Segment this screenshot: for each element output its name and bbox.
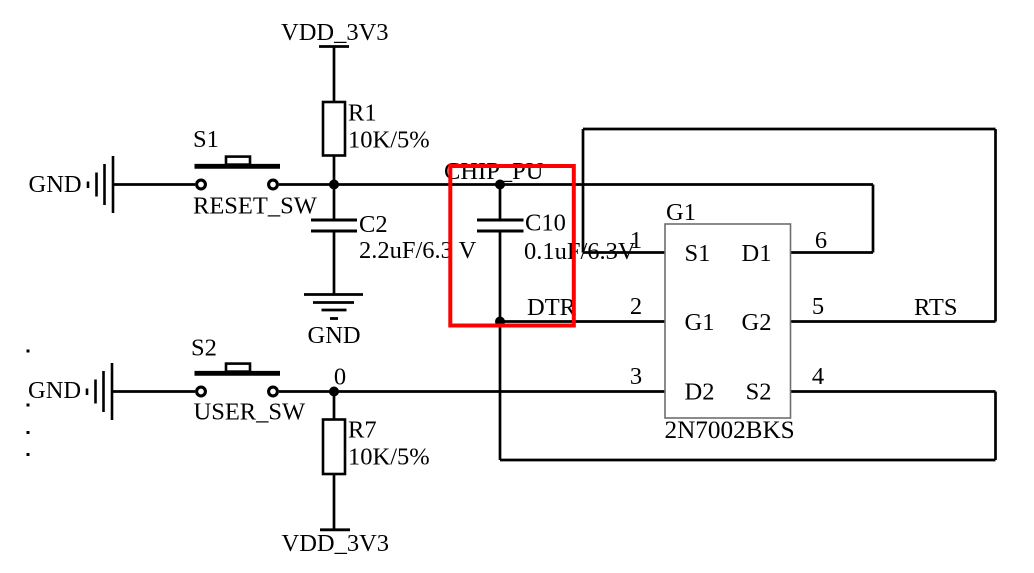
svg-text:R1: R1 <box>348 100 377 127</box>
wire pin 6 riser <box>872 185 875 253</box>
svg-text:RESET_SW: RESET_SW <box>193 193 318 220</box>
svg-text:C2: C2 <box>359 211 388 238</box>
resistor R1 <box>323 102 345 156</box>
stray mark 4 <box>27 453 30 456</box>
wire pin 6 (D1) <box>791 251 874 254</box>
svg-text:1: 1 <box>630 227 642 254</box>
wire bottom bus <box>500 459 996 462</box>
svg-text:GND: GND <box>308 322 361 349</box>
svg-text:VDD_3V3: VDD_3V3 <box>282 530 390 557</box>
wire DTR drop <box>499 322 502 461</box>
wire pin 4 (S2) <box>791 390 996 393</box>
svg-text:4: 4 <box>812 363 824 390</box>
component body G1 (2N7002BKS) <box>665 224 791 418</box>
svg-text:5: 5 <box>812 293 824 320</box>
svg-text:RTS: RTS <box>914 294 957 321</box>
junction node CHIP_PU / C10 top <box>495 180 505 190</box>
svg-text:G2: G2 <box>742 309 772 336</box>
svg-text:G1: G1 <box>685 309 715 336</box>
svg-text:CHIP_PU: CHIP_PU <box>444 158 544 185</box>
svg-text:DTR: DTR <box>527 294 577 321</box>
wire pin 1 (S1) <box>583 251 665 254</box>
wire GND to S1 pin (reset row) <box>113 183 195 186</box>
svg-text:S1: S1 <box>193 126 219 153</box>
wire pin 5 RTS (G2) <box>791 320 996 323</box>
wire C10 bottom lead <box>499 232 502 322</box>
wire R7 top lead <box>333 392 336 422</box>
junction node DTR / C10 bottom <box>495 317 505 327</box>
power symbol VDD_3V3 top <box>319 45 349 48</box>
wire pin 4 drop <box>994 392 997 461</box>
svg-text:R7: R7 <box>348 417 377 444</box>
switch S1 <box>195 157 281 189</box>
svg-text:S2: S2 <box>746 379 772 406</box>
wire C2 top lead <box>333 185 336 220</box>
svg-text:10K/5%: 10K/5% <box>348 127 430 154</box>
wire top bus left vertical <box>582 129 585 253</box>
stray mark 1 <box>27 350 30 353</box>
svg-text:6: 6 <box>815 227 827 254</box>
highlight box around C10 <box>450 166 574 326</box>
svg-text:GND: GND <box>28 377 81 404</box>
svg-text:S1: S1 <box>685 240 711 267</box>
resistor R7 <box>323 420 345 475</box>
wire DTR row pin 2 (G1) <box>500 320 665 323</box>
svg-text:10K/5%: 10K/5% <box>348 444 430 471</box>
wire top bus horizontal <box>583 128 996 131</box>
power symbol VDD_3V3 bottom <box>320 528 350 531</box>
svg-text:D2: D2 <box>685 379 715 406</box>
svg-text:S2: S2 <box>191 335 217 362</box>
svg-text:0: 0 <box>334 364 346 391</box>
wire GND to S2 pin (user row) <box>112 390 195 393</box>
wire S2 to pin 3 (D2) <box>279 390 665 393</box>
wire C2 bottom lead <box>333 232 336 295</box>
svg-text:3: 3 <box>630 363 642 390</box>
wire top bus right vertical <box>994 129 997 322</box>
svg-text:2.2uF/6.3 V: 2.2uF/6.3 V <box>359 237 477 264</box>
ground symbol left of S2 <box>87 363 112 420</box>
stray mark 3 <box>27 431 30 434</box>
svg-text:GND: GND <box>29 171 82 198</box>
svg-text:C10: C10 <box>525 210 566 237</box>
svg-text:0.1uF/6.3V: 0.1uF/6.3V <box>524 238 636 265</box>
junction node R1/S1/C2 <box>329 180 339 190</box>
svg-text:VDD_3V3: VDD_3V3 <box>281 19 389 46</box>
junction node S2/R7/pin3 <box>329 387 339 397</box>
wire S1 to pin6 riser (CHIP_PU net) <box>279 183 873 186</box>
svg-text:2N7002BKS: 2N7002BKS <box>665 417 795 444</box>
ground symbol left of S1 <box>88 156 113 213</box>
switch S2 <box>195 364 281 396</box>
svg-text:G1: G1 <box>666 199 696 226</box>
wire C10 top lead <box>499 185 502 220</box>
ground symbol under C2 <box>304 295 363 319</box>
wire R1 top lead <box>333 47 336 104</box>
wire R1 bottom lead <box>333 155 336 185</box>
svg-text:USER_SW: USER_SW <box>194 399 307 426</box>
capacitor C2 <box>311 220 357 231</box>
wire R7 bottom lead <box>333 473 336 530</box>
svg-text:D1: D1 <box>742 240 772 267</box>
stray mark 2 <box>27 404 30 407</box>
svg-text:2: 2 <box>630 293 642 320</box>
capacitor C10 <box>477 220 524 231</box>
